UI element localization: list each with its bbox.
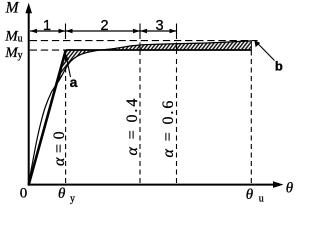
- vertical dashed line theta-y (alpha=0): [65, 68, 67, 184]
- dim arrow right into tick1: [59, 29, 66, 34]
- svg-text:2: 2: [100, 18, 108, 34]
- leader line to point a: [67, 60, 71, 78]
- svg-text:0: 0: [20, 186, 28, 202]
- vertical line alpha=0.4 solid segment through band: [139, 43, 141, 56]
- vertical dashed line theta-u: [250, 51, 252, 184]
- hatched lens region near a: [59, 50, 99, 81]
- svg-text:y: y: [18, 50, 23, 61]
- dim arrow left at axis: [30, 29, 37, 34]
- svg-text:y: y: [70, 193, 75, 204]
- svg-text:α = 0: α = 0: [51, 131, 68, 166]
- leader arrowhead at point b: [254, 40, 260, 47]
- vertical dashed line alpha=0.6: [176, 59, 178, 184]
- y-axis arrowhead: [25, 3, 32, 13]
- svg-text:u: u: [18, 33, 23, 44]
- svg-text:b: b: [275, 59, 283, 74]
- svg-text:α = 0.4: α = 0.4: [124, 97, 141, 156]
- svg-text:a: a: [70, 74, 78, 90]
- idealized plastic horizontal line at My: [66, 49, 252, 51]
- tick 1: [65, 24, 67, 40]
- real M-theta curve: [29, 41, 252, 185]
- svg-text:θ: θ: [286, 180, 294, 196]
- dimension line: [30, 30, 177, 32]
- svg-text:u: u: [259, 194, 264, 205]
- tick 2: [139, 24, 141, 40]
- vertical line alpha=0.6 solid segment through band: [176, 43, 178, 55]
- svg-text:θ: θ: [246, 187, 254, 203]
- dashed horizontal line My level: [30, 49, 66, 51]
- x-axis: [28, 184, 275, 186]
- hatched band region up to b: [99, 41, 252, 50]
- leader line to point b: [258, 44, 275, 61]
- svg-text:3: 3: [155, 18, 163, 34]
- svg-text:α = 0.6: α = 0.6: [160, 99, 177, 158]
- dashed horizontal line Mu level: [30, 40, 258, 42]
- leader arrowhead at point a: [65, 53, 69, 61]
- dim arrow right into tick3: [170, 29, 177, 34]
- dim arrow right into tick2: [133, 29, 140, 34]
- x-axis arrowhead: [273, 181, 284, 188]
- tick 3: [176, 24, 178, 40]
- vertical dashed line alpha=0.4: [139, 59, 141, 184]
- svg-text:M: M: [5, 0, 20, 16]
- y-axis: [28, 10, 30, 186]
- dim arrow left into tick2: [140, 29, 147, 34]
- svg-text:1: 1: [43, 18, 51, 34]
- svg-text:θ: θ: [58, 186, 66, 202]
- idealized elastic thick line O to a: [29, 50, 66, 185]
- dim arrow left into tick1: [66, 29, 73, 34]
